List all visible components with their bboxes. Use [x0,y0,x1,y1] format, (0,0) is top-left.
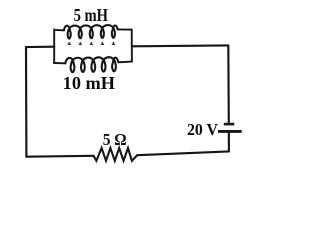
wire: box bottom edge right stub [118,61,131,64]
resistor R1 zigzag [94,148,138,161]
wire: box top edge right stub [118,28,132,30]
wire: box top edge left stub [54,29,64,31]
svg-text:10 mH: 10 mH [63,73,115,93]
inductor L2 10 mH (bottom coil) [65,57,118,72]
wire: box bottom edge left stub [54,62,65,64]
battery V1 long plate (bottom) [218,130,242,133]
wire: input to parallel box [26,46,54,49]
battery V1 short plate (top) [224,123,235,126]
svg-text:20 V: 20 V [187,120,218,139]
wire: right vertical upper [227,45,230,124]
node: box left edge [53,29,55,63]
tick marks under top coil ovals [68,42,115,45]
node: box right edge [131,30,133,62]
svg-text:5 mH: 5 mH [74,5,109,25]
wire: bottom left segment [26,155,93,158]
wire: output to right side [132,44,228,47]
wire: right vertical lower [228,131,230,151]
wire: left vertical [25,47,28,157]
wire: bottom right segment [137,151,229,155]
svg-text:5 Ω: 5 Ω [103,130,127,149]
inductor L1 5 mH (top coil) [64,25,118,38]
